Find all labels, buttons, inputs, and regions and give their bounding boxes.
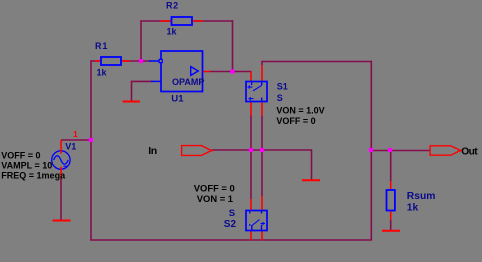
wire: Rsum bottom to ground x=390.7 — [390, 220, 392, 230]
resistor R2 body — [172, 17, 193, 25]
wire: Out horizontal y=150.5 — [372, 150, 431, 152]
node: right rail junction — [369, 148, 373, 152]
node: V1 junction — [89, 138, 93, 142]
wire: opamp minus input horizontal y=81.5 — [132, 80, 152, 82]
wire: S1 top-right drop x=261.5 — [261, 61, 263, 66]
svg-text:Out: Out — [461, 147, 478, 158]
svg-text:Rsum: Rsum — [407, 191, 436, 202]
svg-text:VOFF = 0: VOFF = 0 — [1, 150, 40, 160]
switch S2 body — [246, 211, 267, 231]
svg-text:V1: V1 — [65, 142, 76, 152]
svg-text:VAMPL = 10: VAMPL = 10 — [1, 160, 52, 170]
source V1 top pin — [60, 140, 62, 154]
wire: Rsum top drop x=390.5 — [390, 151, 392, 182]
ground: V1 — [53, 220, 71, 222]
wire: S1-S2 left vertical x=250.5 — [250, 116, 252, 200]
svg-text:FREQ = 1mega: FREQ = 1mega — [1, 170, 66, 180]
resistor Rsum body — [387, 190, 395, 211]
switch S1 body — [246, 82, 267, 102]
wire: left vertical rail x=91 — [90, 60, 92, 240]
svg-text:S: S — [229, 208, 235, 219]
source V1 bottom pin — [60, 167, 62, 179]
svg-text:R1: R1 — [95, 41, 108, 51]
op-amp U1 body — [149, 51, 203, 92]
svg-text:VOFF = 0: VOFF = 0 — [276, 116, 315, 126]
svg-text:OPAMP: OPAMP — [172, 77, 204, 87]
wire: In ground drop x=311.5 — [311, 149, 313, 179]
svg-text:1k: 1k — [167, 27, 178, 37]
wire: feedback left vertical x=141 — [140, 20, 142, 61]
ground: In net — [302, 179, 320, 181]
node: op-amp output junction — [230, 69, 234, 73]
op-amp U1 output pin — [203, 71, 211, 73]
svg-text:VOFF = 0: VOFF = 0 — [194, 183, 235, 194]
wire: opamp ground drop x=131.5 — [131, 81, 133, 101]
svg-text:S1: S1 — [277, 82, 288, 92]
switch S2 pins — [251, 196, 262, 241]
source V1 circle — [52, 151, 70, 169]
svg-text:In: In — [148, 145, 156, 157]
svg-text:VON = 1: VON = 1 — [197, 193, 233, 204]
resistor Rsum bottom pin — [390, 211, 392, 221]
svg-text:1k: 1k — [97, 67, 108, 77]
svg-text:R2: R2 — [166, 1, 179, 11]
resistor R2 pins — [161, 20, 203, 22]
svg-text:1k: 1k — [407, 203, 419, 214]
wire: R2 top net horizontal y=21 — [141, 20, 233, 22]
node: Rsum junction — [388, 148, 392, 152]
node: R1 feedback junction — [139, 59, 143, 63]
resistor R1 body — [101, 57, 121, 65]
wire: right vertical rail x=371.5 — [370, 61, 372, 240]
wire: V1 top horizontal y=140 — [61, 139, 91, 141]
Out port tag — [430, 146, 462, 155]
svg-text:S: S — [277, 93, 283, 103]
wire: S1 to right rail top y=61.3 — [262, 61, 372, 63]
svg-text:1: 1 — [73, 129, 78, 139]
source V1 minus mark — [64, 165, 67, 167]
wire: opamp output to S1 y=71.5 — [210, 71, 252, 73]
node: In-S1S2 left junction — [249, 148, 253, 152]
svg-text:VON = 1.0V: VON = 1.0V — [276, 106, 324, 116]
node: In-S1S2 right junction — [260, 148, 264, 152]
ground: op-amp minus input — [123, 101, 141, 103]
wire: V1 bottom to ground x=61 — [60, 178, 62, 220]
svg-text:U1: U1 — [171, 94, 184, 105]
wire: feedback right vertical x=232.5 — [232, 20, 234, 71]
wire: bottom rail y=237 — [90, 239, 372, 241]
wire: R1 input horizontal y=61 — [91, 60, 150, 62]
wire: In port horizontal y=150 — [212, 149, 312, 151]
ground: Rsum — [382, 230, 400, 232]
svg-text:S2: S2 — [224, 219, 237, 230]
resistor R1 pins — [95, 60, 130, 62]
In port tag — [182, 146, 213, 156]
wire: S1-S2 right vertical x=261.5 — [261, 116, 263, 197]
resistor Rsum top pin — [390, 181, 392, 190]
switch S1 pins — [251, 65, 262, 115]
